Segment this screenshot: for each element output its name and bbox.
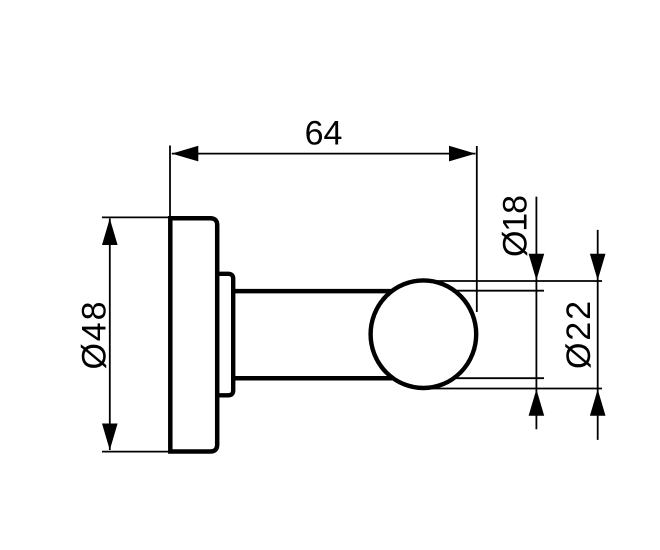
dim O18 dimension line (535, 197, 537, 430)
extension line arm bottom (424, 377, 545, 379)
wall plate (170, 218, 217, 451)
extension line arm top (424, 290, 545, 292)
collar flange (217, 274, 233, 396)
extension line knob top tangent (424, 280, 603, 282)
dim O48 dimension line (109, 219, 111, 451)
dim O48 down arrow (102, 424, 118, 451)
dim 64 right arrow (449, 146, 476, 162)
svg-text:Ø22: Ø22 (560, 301, 598, 369)
extension line knob bottom tangent (424, 388, 603, 390)
svg-text:Ø18: Ø18 (497, 195, 535, 257)
dim 64 left arrow (172, 146, 199, 162)
dim O22 up arrow (590, 389, 606, 416)
dim O22 down arrow (590, 254, 606, 280)
dim O18 up arrow (529, 389, 545, 416)
svg-text:64: 64 (305, 115, 343, 153)
dim 64 right extension line (476, 146, 478, 312)
dim O48 top extension line (102, 216, 172, 218)
svg-text:Ø48: Ø48 (76, 302, 114, 370)
dim O48 bottom extension line (102, 451, 172, 453)
dim 64 left extension line (169, 146, 171, 217)
dim O18 down arrow (529, 254, 545, 280)
dim 64 dimension line (172, 153, 476, 155)
dim O22 dimension line (597, 230, 599, 440)
dim O48 up arrow (102, 219, 118, 246)
arm top outline line (231, 289, 440, 294)
knob circle (371, 280, 477, 388)
arm bottom outline line (231, 376, 440, 381)
